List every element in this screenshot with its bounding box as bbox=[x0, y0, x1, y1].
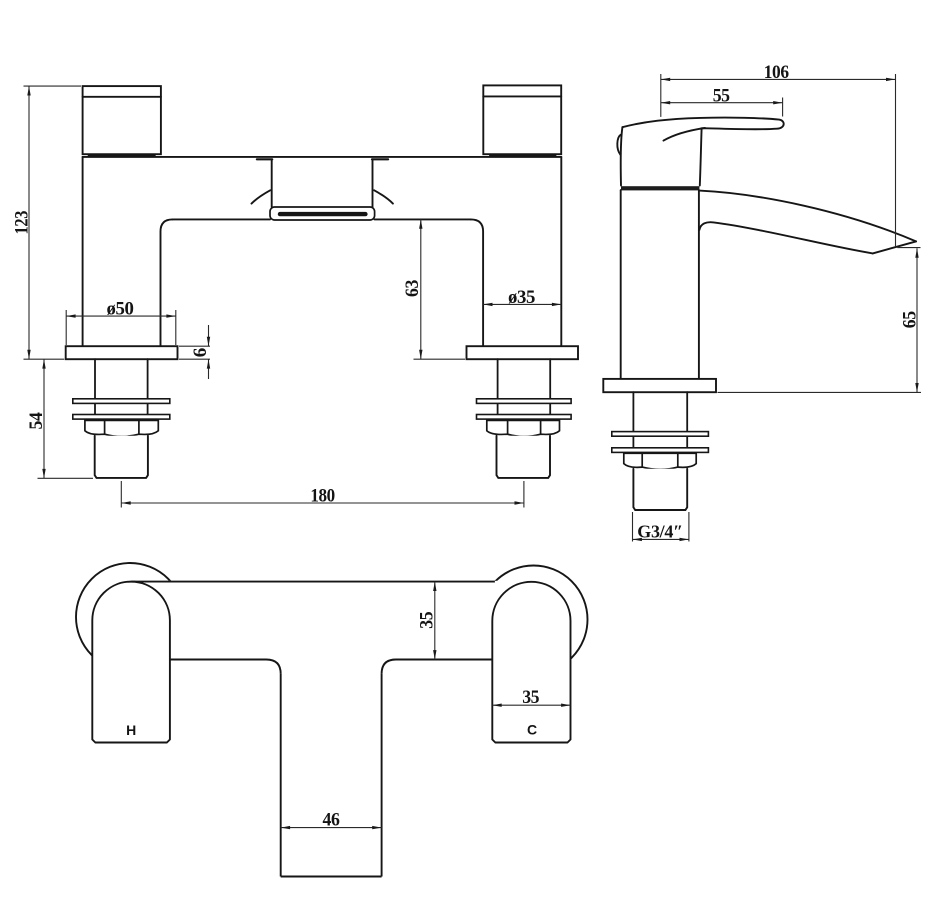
spout top curve bbox=[699, 191, 916, 242]
bridge bottom right segment with fillet bbox=[382, 660, 493, 674]
arrows front view bbox=[27, 86, 561, 505]
dim 63 ext bottom bbox=[414, 358, 466, 360]
dim 54 ext bottom bbox=[38, 477, 94, 479]
arrow o35 left bbox=[483, 303, 492, 306]
side upper tail bbox=[633, 392, 687, 453]
right pillar outer edge bbox=[560, 157, 562, 346]
arrow 63 bottom bbox=[419, 350, 422, 359]
dim 65 ext bottom bbox=[718, 391, 922, 393]
lever handle outline bbox=[622, 118, 783, 186]
left pillar outer edge bbox=[82, 157, 84, 346]
arrow 180 right bbox=[515, 501, 524, 504]
svg-text:G3/4″: G3/4″ bbox=[637, 521, 682, 541]
dim 6 ext top bbox=[179, 345, 210, 347]
svg-text:C: C bbox=[527, 722, 537, 738]
dim 6 line bottom bbox=[208, 359, 210, 379]
dim 106 ext right bbox=[895, 74, 897, 246]
svg-text:106: 106 bbox=[764, 62, 789, 83]
aerator tip (front view) bbox=[270, 207, 375, 220]
dim o50 ext left bbox=[65, 310, 67, 345]
handle C box (front view right) bbox=[483, 85, 561, 156]
bridge top edge bbox=[83, 156, 562, 158]
svg-text:ø50: ø50 bbox=[107, 299, 134, 320]
dim G3/4 line bbox=[633, 538, 689, 540]
svg-text:63: 63 bbox=[402, 280, 423, 297]
bridge top line (plan) bbox=[131, 581, 495, 583]
side washer 2 bbox=[612, 448, 709, 453]
spout shroud right top tick bbox=[372, 158, 388, 160]
arrow o50 right bbox=[166, 314, 175, 317]
arrow 6 bottom bbox=[207, 359, 210, 368]
arrow 65 bottom bbox=[915, 383, 918, 392]
C stadium body bbox=[492, 582, 570, 743]
dim o35 line bbox=[483, 303, 561, 305]
dim 65 line bbox=[916, 248, 918, 392]
dim 123 line bbox=[28, 86, 30, 359]
bridge bottom edge right segment bbox=[374, 218, 470, 220]
bridge bottom edge left segment bbox=[173, 218, 271, 220]
spout shroud right vertical bbox=[372, 159, 374, 207]
svg-text:35: 35 bbox=[522, 687, 539, 708]
right pillar inner edge with fillet bbox=[471, 219, 483, 346]
svg-text:35: 35 bbox=[417, 612, 438, 629]
arrow 55 right bbox=[773, 101, 782, 104]
spout front curve bbox=[699, 222, 872, 253]
dim 65 ext top bbox=[897, 247, 920, 249]
left lower tail bbox=[95, 436, 148, 478]
dim 180 line bbox=[121, 502, 524, 504]
dimensions plan view bbox=[281, 582, 571, 828]
side flange bbox=[603, 379, 716, 392]
left nut bbox=[85, 420, 158, 436]
texts plan view bbox=[126, 612, 539, 831]
left washer 2 bbox=[73, 415, 170, 420]
dim 6 ext bottom bbox=[179, 358, 210, 360]
right flange bbox=[467, 346, 579, 359]
arrow 35h right bbox=[561, 704, 570, 707]
dim 46 line bbox=[281, 827, 382, 829]
dim 123 extension top bbox=[24, 85, 82, 87]
svg-text:65: 65 bbox=[899, 311, 920, 328]
body left edge bbox=[620, 190, 622, 379]
lever left edge bbox=[621, 127, 623, 185]
arrow 54 bottom bbox=[42, 469, 45, 478]
dim 106 line bbox=[661, 78, 896, 80]
spout right diagonal bbox=[374, 190, 393, 203]
handle H box (front view left) bbox=[83, 86, 161, 156]
arrow G34 left bbox=[633, 538, 642, 541]
dim 35 vertical line bbox=[434, 582, 436, 660]
body right edge bbox=[698, 190, 700, 379]
arrow G34 right bbox=[680, 538, 689, 541]
arrow 123 bottom bbox=[27, 350, 30, 359]
arrow 46 right bbox=[372, 826, 381, 829]
dim 180 ext left bbox=[120, 481, 122, 508]
dim 63 line bbox=[420, 219, 422, 359]
arrow 63 top bbox=[419, 219, 422, 228]
dim o50 line bbox=[66, 315, 176, 317]
right washer 1 bbox=[477, 399, 572, 404]
aerator slot bbox=[278, 212, 368, 216]
right lower tail bbox=[497, 436, 551, 478]
svg-text:46: 46 bbox=[323, 809, 340, 830]
arrow 55 left bbox=[661, 101, 670, 104]
spout shroud left top tick bbox=[257, 158, 272, 160]
dim o50 ext right bbox=[175, 310, 177, 345]
arrow o35 right bbox=[552, 303, 561, 306]
dim 55 line bbox=[661, 102, 783, 104]
spout leg bottom cap bbox=[281, 876, 382, 878]
dim 6 line top bbox=[208, 325, 210, 346]
left flange bbox=[66, 346, 178, 359]
bridge band mask bbox=[131, 581, 531, 659]
dim texts front view bbox=[12, 211, 536, 507]
collar band bbox=[621, 186, 699, 190]
spout shroud left vertical bbox=[271, 159, 273, 207]
svg-text:54: 54 bbox=[26, 412, 47, 430]
arrow 123 top bbox=[27, 86, 30, 95]
dim 123 ext bottom / flange bottom ext bbox=[24, 358, 65, 360]
dim 55 ext right bbox=[782, 98, 784, 117]
arrow 106 right bbox=[886, 78, 895, 81]
svg-text:H: H bbox=[126, 722, 136, 738]
arrows side view bbox=[633, 78, 919, 541]
spout leg left edge bbox=[280, 674, 282, 877]
right nut bbox=[487, 420, 560, 436]
spout left diagonal bbox=[252, 190, 271, 203]
svg-text:123: 123 bbox=[12, 211, 33, 235]
arrow 54 top bbox=[42, 359, 45, 368]
left washer 1 bbox=[73, 399, 170, 404]
arrow 180 left bbox=[121, 501, 130, 504]
dim 106 ext left bbox=[660, 74, 662, 117]
right upper tail bbox=[498, 359, 551, 420]
left upper tail bbox=[95, 359, 148, 420]
side washer 1 bbox=[612, 432, 709, 437]
lever left knob arc bbox=[617, 135, 620, 155]
arrow 65 top bbox=[915, 248, 918, 257]
dim G3/4 ext right bbox=[688, 512, 690, 542]
arrow o50 left bbox=[66, 314, 75, 317]
left pillar inner edge with fillet bbox=[161, 219, 173, 346]
dim texts side view bbox=[637, 62, 920, 541]
side lower tail bbox=[633, 469, 687, 510]
dimensions side view bbox=[633, 74, 922, 542]
H stadium body bbox=[92, 582, 170, 743]
arrow 6 top bbox=[207, 337, 210, 346]
arrows plan view bbox=[281, 582, 571, 830]
svg-text:180: 180 bbox=[310, 486, 335, 507]
dim G3/4 ext left bbox=[632, 512, 634, 542]
left escutcheon circle bbox=[76, 563, 184, 671]
bridge bottom left segment with fillet bbox=[170, 660, 281, 674]
svg-text:6: 6 bbox=[190, 348, 211, 357]
svg-text:ø35: ø35 bbox=[508, 287, 535, 308]
spout leg right edge bbox=[381, 674, 383, 877]
svg-text:55: 55 bbox=[713, 86, 730, 107]
right washer 2 bbox=[477, 415, 572, 420]
arrow 35h left bbox=[492, 704, 501, 707]
dim 180 ext right bbox=[523, 481, 525, 508]
dim 54 line bbox=[43, 359, 45, 478]
arrow 106 left bbox=[661, 78, 670, 81]
lever inner shoulder curve bbox=[664, 128, 706, 141]
arrow 35v bottom bbox=[433, 650, 436, 659]
side nut bbox=[624, 453, 696, 469]
arrow 46 left bbox=[281, 826, 290, 829]
spout tip return edge bbox=[873, 241, 916, 253]
dim 35h line bbox=[492, 704, 570, 706]
right escutcheon circle bbox=[480, 566, 588, 674]
arrow 35v top bbox=[433, 582, 436, 591]
